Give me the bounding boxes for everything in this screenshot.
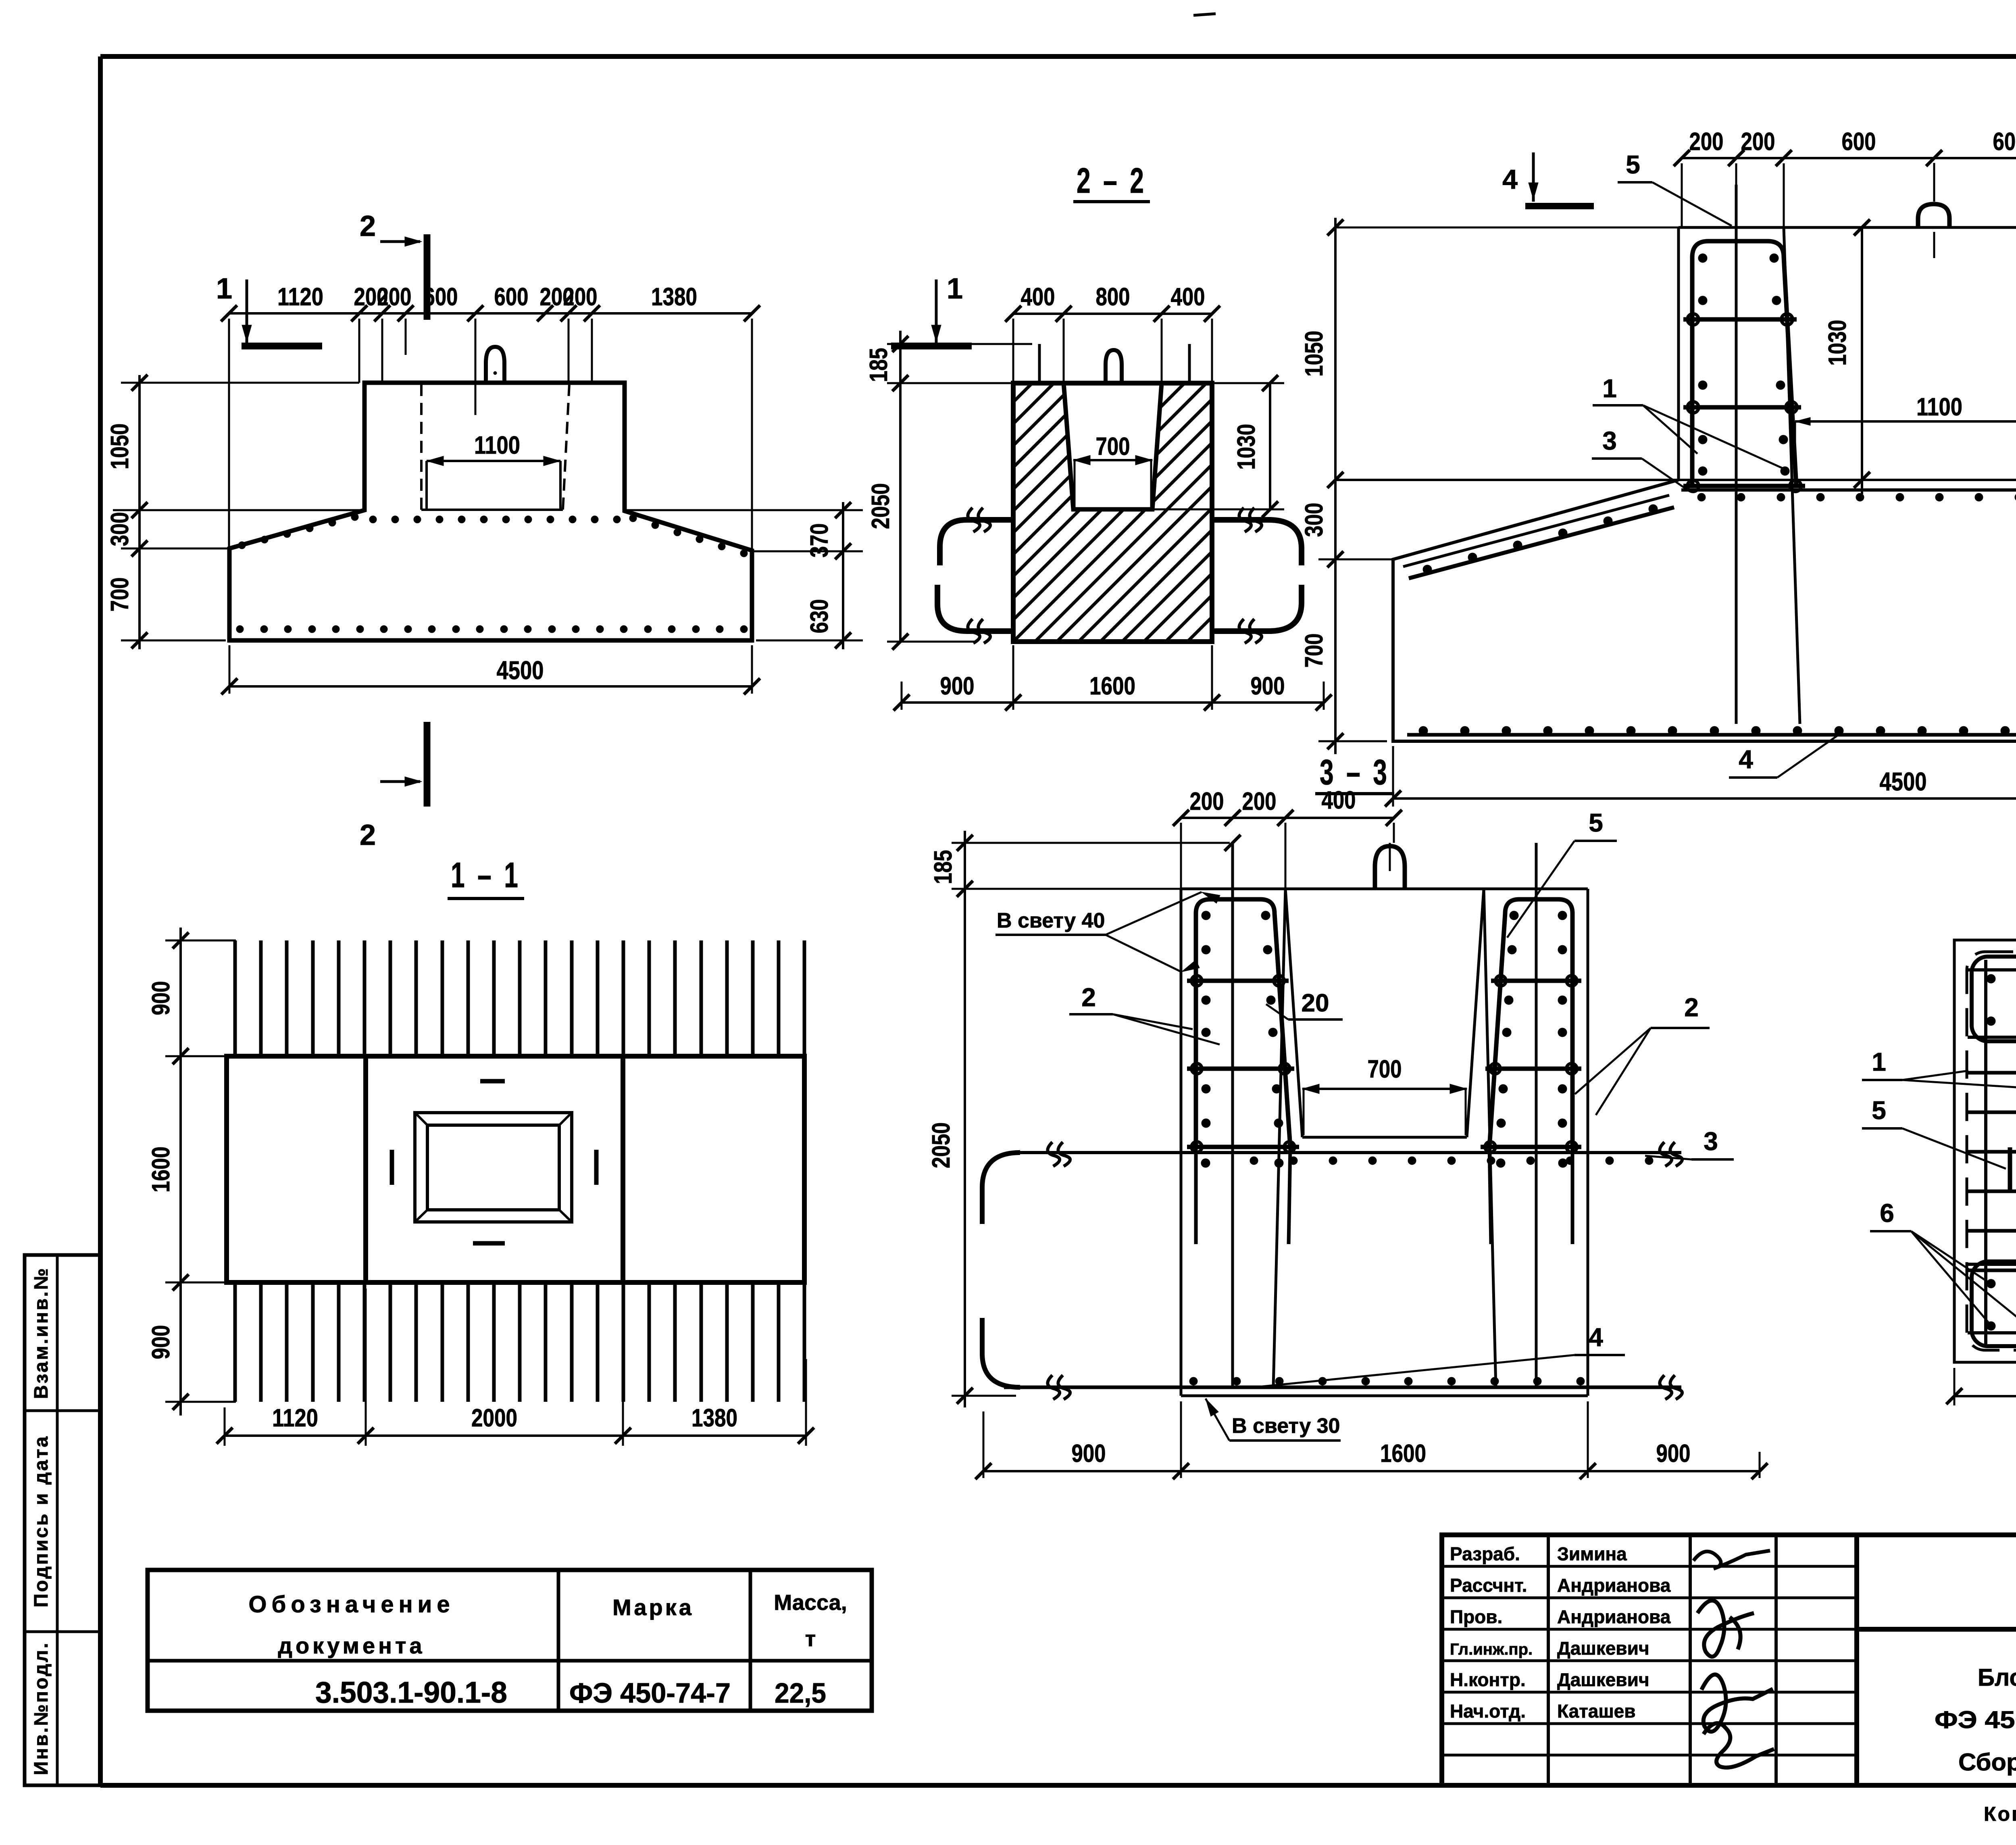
bottom mesh bar 4 with dots (1407, 733, 2016, 737)
title block horizontal rows (1442, 1565, 1857, 1568)
svg-text:Марка: Марка (612, 1595, 694, 1620)
slab outline plan (227, 1056, 804, 1282)
svg-text:1030: 1030 (1824, 320, 1851, 366)
svg-text:4500: 4500 (497, 656, 544, 685)
svg-text:1: 1 (947, 273, 963, 305)
unfolded bars left (items 3,4) (940, 520, 1012, 565)
svg-text:т: т (805, 1627, 816, 1651)
extension lines left (121, 382, 359, 384)
svg-text:1120: 1120 (277, 283, 323, 311)
svg-text:1600: 1600 (1380, 1440, 1426, 1468)
svg-text:370: 370 (806, 523, 833, 558)
svg-text:600: 600 (1993, 128, 2016, 156)
svg-text:600: 600 (1842, 128, 1876, 156)
svg-text:5: 5 (1626, 150, 1640, 179)
svg-text:700: 700 (1300, 634, 1328, 668)
svg-text:Нач.отд.: Нач.отд. (1450, 1701, 1526, 1722)
block outline: pedestal part (1181, 888, 1588, 890)
left dim chain 1050 300 700 (138, 375, 141, 649)
svg-text:4: 4 (1589, 1323, 1603, 1352)
svg-text:800: 800 (1096, 283, 1130, 311)
svg-text:2: 2 (360, 210, 376, 242)
sheet frame bottom border (100, 1783, 2016, 1788)
slab top mesh bar with dots (1018, 1151, 1681, 1154)
svg-text:200: 200 (1242, 788, 1277, 815)
pedestal outline (1679, 226, 2016, 229)
svg-text:1120: 1120 (272, 1404, 318, 1432)
left stamp column boxes (25, 1255, 100, 1785)
dashed cage perimeter (1967, 952, 2016, 1350)
top dim 400 800 400 (1013, 313, 1212, 315)
direction marks (480, 1079, 505, 1084)
cages (1196, 899, 1290, 1147)
dim 1030 right (1269, 383, 1271, 509)
svg-text:700: 700 (106, 577, 134, 612)
svg-text:Сборочный чертеж: Сборочный чертеж (1958, 1749, 2016, 1776)
svg-text:1100: 1100 (1916, 393, 1962, 421)
svg-text:900: 900 (1072, 1440, 1106, 1468)
svg-text:1: 1 (216, 273, 232, 305)
extension lines right (625, 509, 863, 511)
bottom dim 900 1600 900 (983, 1411, 985, 1478)
svg-text:ФЭ 450-74-7: ФЭ 450-74-7 (569, 1677, 731, 1709)
svg-text:1050: 1050 (106, 423, 134, 469)
dim 185 left (899, 331, 902, 393)
svg-text:4500: 4500 (1880, 767, 1927, 796)
centre line through lifting loop (475, 319, 477, 415)
footing outline (1393, 480, 2016, 741)
svg-text:1030: 1030 (1233, 424, 1260, 470)
svg-text:200: 200 (377, 283, 412, 311)
svg-text:2: 2 (1684, 993, 1699, 1022)
svg-text:ФЭ 450 – 74 – 7: ФЭ 450 – 74 – 7 (1935, 1706, 2016, 1733)
socket walls (1285, 889, 1302, 1137)
projecting bar ends (items 5) (1038, 344, 1041, 382)
left band bars (1967, 1071, 2016, 1075)
pedestal edges in plan (363, 1056, 368, 1282)
svg-text:2000: 2000 (471, 1404, 517, 1432)
svg-text:600: 600 (424, 283, 458, 311)
vertical direction marks (2008, 1147, 2012, 1192)
left dim chain 1050 300 700 (1334, 218, 1337, 754)
section mark 1 left (246, 279, 248, 345)
lifting loop (1918, 204, 1949, 227)
svg-text:20: 20 (1302, 989, 1329, 1017)
slab bottom mesh bar 4 with dots (1004, 1386, 1681, 1389)
svg-text:3: 3 (1602, 426, 1617, 455)
svg-text:Андрианова: Андрианова (1557, 1606, 1671, 1627)
svg-text:400: 400 (1171, 283, 1205, 311)
slab bottom (1181, 1395, 1588, 1397)
block side edges full height (1180, 889, 1183, 1396)
svg-text:2 – 2: 2 – 2 (1077, 161, 1147, 200)
left slope mesh bars (1403, 495, 1669, 567)
section mark 2 bottom (424, 722, 431, 807)
svg-text:Андрианова: Андрианова (1557, 1575, 1671, 1596)
dim 2000 bottom (1954, 1368, 1956, 1405)
svg-text:22,5: 22,5 (775, 1677, 826, 1709)
svg-text:700: 700 (1368, 1055, 1402, 1083)
svg-text:Копировал Тип.: Копировал Тип. (1984, 1803, 2016, 1825)
svg-text:600: 600 (494, 283, 529, 311)
bottom dim 4500 (229, 645, 231, 694)
svg-text:документа: документа (278, 1633, 425, 1658)
dim 2050 left (899, 383, 902, 642)
title block verticals (1547, 1535, 1550, 1785)
stray mark top center (1193, 14, 1216, 15)
extension lines from 400/800 ticks (1012, 319, 1014, 383)
svg-text:Инв.№подл.: Инв.№подл. (31, 1641, 52, 1775)
svg-text:200: 200 (1190, 788, 1224, 815)
svg-text:2: 2 (360, 819, 376, 851)
svg-text:1380: 1380 (651, 283, 697, 311)
section mark 1 right (935, 279, 938, 345)
bottom rebar dots (236, 625, 244, 633)
title block outer (1442, 1535, 2016, 1785)
left cage (karkas) (1692, 241, 1796, 486)
svg-text:900: 900 (147, 981, 175, 1015)
svg-text:1 – 1: 1 – 1 (451, 855, 521, 895)
svg-text:1380: 1380 (691, 1404, 737, 1432)
svg-text:Дашкевич: Дашкевич (1557, 1638, 1649, 1659)
svg-text:Разраб.: Разраб. (1450, 1543, 1520, 1564)
svg-text:1: 1 (1602, 374, 1617, 403)
svg-text:Н.контр.: Н.контр. (1450, 1669, 1526, 1690)
svg-text:900: 900 (1656, 1440, 1691, 1468)
svg-text:5: 5 (1872, 1096, 1886, 1125)
svg-text:1: 1 (1872, 1047, 1886, 1076)
socket walls (1064, 383, 1162, 509)
long bars item 5 left cage (1735, 185, 1738, 724)
svg-text:Пров.: Пров. (1450, 1606, 1502, 1627)
svg-text:3: 3 (1704, 1127, 1718, 1156)
bottom dim 900 1600 900 (1012, 645, 1014, 710)
svg-text:4: 4 (1739, 745, 1753, 774)
dim 185 and 2050 left (964, 831, 966, 1407)
dim 1030 (1861, 227, 1863, 494)
haunch slope left is part of outline; top row rebar dots (238, 542, 246, 549)
svg-text:300: 300 (1300, 503, 1328, 537)
extension lines from top dim (228, 319, 230, 548)
sheet frame top border (100, 54, 2016, 59)
bottom dim 1120 2000 1380 (224, 1407, 226, 1446)
long bars item 5 (1231, 843, 1234, 1387)
unfolded bar hooks left (982, 1153, 1020, 1224)
svg-text:Подпись и дата: Подпись и дата (31, 1435, 52, 1607)
svg-text:5: 5 (1589, 808, 1603, 837)
left dim chain 900 1600 900 (179, 928, 182, 1416)
flat top mesh bar with dots (1681, 488, 2016, 492)
svg-text:630: 630 (806, 599, 833, 634)
svg-text:200: 200 (1689, 128, 1724, 156)
svg-text:400: 400 (1322, 786, 1356, 814)
svg-text:Каташев: Каташев (1557, 1701, 1636, 1722)
svg-text:В свету 40: В свету 40 (997, 909, 1105, 932)
svg-text:Рассчнт.: Рассчнт. (1450, 1575, 1527, 1596)
svg-text:В свету 30: В свету 30 (1232, 1414, 1340, 1438)
svg-text:3.503.1-90.1-8: 3.503.1-90.1-8 (315, 1676, 507, 1709)
svg-text:1100: 1100 (474, 432, 520, 459)
svg-text:900: 900 (940, 672, 975, 700)
signature squiggles (1693, 1551, 1770, 1569)
svg-text:200: 200 (563, 283, 598, 311)
lifting loop seen in section (1106, 350, 1122, 382)
hatch pattern block body (1013, 383, 1212, 642)
svg-text:185: 185 (929, 850, 957, 884)
sheet frame left border (98, 56, 103, 1785)
svg-text:700: 700 (1096, 433, 1130, 461)
haunch top line with extensions (1335, 479, 2016, 481)
svg-text:2050: 2050 (867, 483, 895, 529)
svg-text:Зимина: Зимина (1557, 1543, 1627, 1564)
svg-text:6: 6 (1880, 1199, 1894, 1228)
svg-text:2: 2 (1081, 983, 1096, 1012)
svg-text:4: 4 (1502, 164, 1518, 195)
svg-text:Масса,: Масса, (774, 1591, 847, 1615)
svg-text:Взам.инв.№: Взам.инв.№ (31, 1267, 52, 1399)
centre line (1933, 163, 1935, 202)
svg-text:300: 300 (106, 512, 134, 546)
svg-text:1050: 1050 (1300, 331, 1328, 377)
extension of pedestal top to chains (1335, 227, 1679, 229)
right dim chain 370 630 (842, 502, 844, 649)
svg-text:1600: 1600 (1089, 672, 1135, 700)
protruding bars top (233, 940, 237, 1056)
svg-text:Обозначение: Обозначение (248, 1591, 454, 1618)
svg-text:Блок фундамента: Блок фундамента (1978, 1664, 2016, 1691)
top dim chain 200 200 600 600 200 200 (1682, 157, 2016, 159)
centre line + lifting loop (1389, 843, 1391, 871)
lifting loop on pedestal top (486, 347, 504, 382)
block outline section 2-2 (1013, 383, 1212, 642)
svg-text:900: 900 (147, 1325, 175, 1359)
section mark 2 top (424, 234, 431, 320)
corner stirrup boxes (1972, 957, 2016, 1041)
block outline: pedestal and footing (elevation) (229, 383, 752, 640)
svg-text:200: 200 (1741, 128, 1775, 156)
protruding bars bottom (233, 1283, 237, 1402)
svg-text:185: 185 (865, 348, 893, 382)
svg-text:2050: 2050 (927, 1122, 955, 1168)
outer slab outline (1954, 940, 2016, 1362)
svg-text:Дашкевич: Дашкевич (1557, 1669, 1649, 1690)
svg-text:Гл.инж.пр.: Гл.инж.пр. (1450, 1641, 1533, 1658)
socket in plan (415, 1113, 572, 1222)
top dim 200 200 400 (1181, 817, 1394, 819)
dim 4500 bottom (1392, 746, 1394, 807)
unfolded bars right (items 3,4) (1214, 520, 1302, 565)
svg-text:1600: 1600 (147, 1147, 175, 1192)
designation table outer (148, 1570, 872, 1711)
top dimension chain 1120 200 200 600 600 200 200 1380 (229, 312, 752, 315)
svg-text:900: 900 (1251, 672, 1285, 700)
hidden socket dashed lines (420, 384, 423, 510)
cage legs extending into slab (1194, 1147, 1198, 1244)
svg-text:400: 400 (1021, 283, 1055, 311)
